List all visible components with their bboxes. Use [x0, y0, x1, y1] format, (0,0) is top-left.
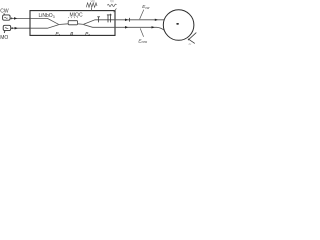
- connector dot CW: [11, 18, 13, 20]
- svg-text:Ecw: Ecw: [142, 4, 150, 10]
- laser MO: [3, 25, 11, 33]
- wire from MO laser: [11, 27, 30, 29]
- dotted electrode line above modulator: [68, 16, 78, 19]
- waveguide after electrode: [78, 23, 84, 26]
- svg-text:f(t): f(t): [110, 0, 113, 3]
- Y-split upper arm: [84, 20, 115, 24]
- coil center dot: [176, 23, 179, 25]
- laser CW: [3, 13, 11, 20]
- waveguide merged: [59, 23, 69, 26]
- electrode tick pair 2: [107, 14, 112, 23]
- output fiber lower: [115, 27, 164, 30]
- leader line lower label: [140, 28, 143, 36]
- Y-split lower arm: [84, 25, 115, 28]
- electrode tick 1: [97, 17, 100, 23]
- output fiber upper: [115, 19, 164, 21]
- svg-text:P2: P2: [85, 31, 90, 37]
- svg-text:B: B: [70, 31, 73, 36]
- svg-text:P1: P1: [56, 31, 61, 37]
- waveguide bottom input: [30, 25, 59, 28]
- fiber coil: [163, 10, 194, 41]
- sine wave connector tick at chip corner: [114, 8, 117, 12]
- wire from CW laser: [10, 17, 30, 19]
- sine drive waveform: [108, 4, 117, 6]
- sawtooth drive waveform: [86, 3, 97, 8]
- arrowhead on MO wire: [15, 27, 18, 30]
- svg-text:CW: CW: [0, 9, 9, 15]
- svg-text:Eccw: Eccw: [138, 38, 147, 44]
- svg-text:V(t): V(t): [91, 0, 95, 3]
- arrowhead lower 2: [152, 26, 155, 28]
- sawtooth connector tick: [90, 8, 92, 11]
- arrowhead upper 1: [125, 19, 128, 22]
- svg-text:MO: MO: [0, 35, 8, 41]
- arrowhead upper 2: [155, 19, 158, 21]
- phase modulator electrode box: [68, 21, 77, 25]
- leader line upper label: [140, 10, 144, 20]
- waveguide top input: [30, 18, 59, 24]
- arrowhead on CW wire: [14, 17, 17, 20]
- LiNbO3 chip box: [30, 11, 115, 36]
- coil tail down-right: [188, 39, 195, 44]
- coil tail up-right: [188, 33, 196, 41]
- arrowhead lower 1: [125, 26, 128, 29]
- connector dot MO: [11, 27, 13, 29]
- splice tick upper: [129, 18, 131, 22]
